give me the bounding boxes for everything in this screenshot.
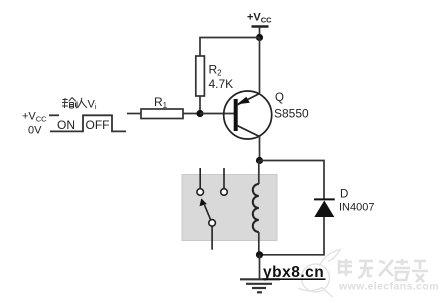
transistor Q S8550	[224, 91, 309, 139]
watermark ybx8.cn	[263, 264, 326, 281]
resistor R2	[196, 56, 233, 96]
waveform input Vi	[49, 115, 126, 131]
svg-text:IN4007: IN4007	[339, 202, 374, 214]
watermark www.elecfans.com	[338, 281, 439, 293]
VCC power symbol	[247, 12, 272, 38]
wire VCC rail to R2	[200, 38, 260, 57]
wire R1 to base node	[183, 113, 200, 115]
wire base node to transistor base	[200, 113, 234, 115]
node base junction	[196, 110, 203, 117]
node ground junction	[256, 251, 263, 258]
svg-text:S8550: S8550	[274, 107, 309, 121]
svg-text:www.elecfans.com: www.elecfans.com	[338, 281, 439, 293]
wire diode to ground rail	[260, 217, 325, 255]
relay switch arm	[200, 198, 216, 249]
relay contact terminal 2	[221, 168, 228, 195]
label 输入Vi (drawn glyphs)	[62, 98, 97, 112]
relay contact terminal 1	[197, 168, 204, 195]
wire collector down	[259, 137, 261, 161]
输	[62, 98, 68, 108]
wire waveform to R1	[127, 113, 141, 115]
relay box (shaded region)	[182, 175, 277, 241]
svg-text:4.7K: 4.7K	[209, 77, 234, 91]
diode D IN4007	[314, 189, 374, 218]
ground	[240, 255, 280, 292]
wire emitter to VCC	[259, 38, 261, 94]
svg-text:Q: Q	[275, 92, 284, 104]
resistor R1	[141, 95, 183, 119]
input waveform labels	[22, 111, 47, 137]
relay coil	[253, 161, 259, 255]
svg-text:D: D	[340, 189, 348, 201]
watermark dove logo	[298, 250, 340, 298]
node VCC junction	[256, 34, 263, 41]
svg-text:0V: 0V	[28, 125, 42, 137]
watermark elecfans characters	[339, 259, 428, 282]
node collector junction	[256, 157, 263, 164]
svg-text:OFF: OFF	[86, 118, 110, 132]
wire R2 to base node	[199, 96, 201, 114]
入	[78, 98, 88, 108]
wire collector node to diode branch	[260, 161, 325, 200]
svg-text:ON: ON	[57, 118, 75, 132]
